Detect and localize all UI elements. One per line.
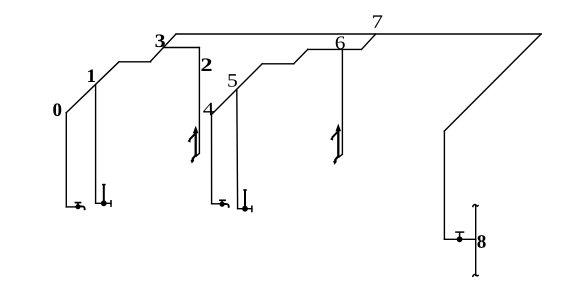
wire: horizontal jog between 1 and 3 [119, 61, 151, 63]
wire: node 5 valve horizontal [238, 208, 252, 210]
node 0 label [53, 103, 61, 116]
wire: horizontal segment above 5 [262, 63, 294, 65]
wire: diagonal main 0-1 to jog [66, 62, 119, 113]
node 7 label [373, 15, 382, 27]
node 1 label [88, 69, 95, 82]
valve (stop valve) at node 5 drop [242, 190, 252, 212]
shower head symbol on riser 2 [188, 126, 200, 164]
wire: horizontal 6-7 segment [308, 48, 362, 50]
wire: top main horizontal line [176, 33, 541, 35]
wire: right drop vertical [443, 131, 445, 239]
node 6 label [336, 36, 345, 49]
node 2 label [201, 58, 211, 71]
riser 8 vertical line [475, 206, 477, 276]
wire: node 0 drop vertical [65, 113, 67, 207]
wire: node 4 drop vertical [211, 115, 213, 204]
wire: diagonal 4-5 branch [212, 64, 263, 115]
wire: riser 2 vertical [198, 48, 200, 154]
riser 8 top break mark [473, 205, 479, 208]
riser 8 bottom break mark [473, 274, 479, 277]
wire: diagonal jog to top line through node 3 [151, 34, 176, 61]
wire: node 3 branch horizontal [164, 47, 200, 49]
node 5 label [228, 74, 237, 87]
node 4 label [203, 103, 214, 116]
wire: node 1 valve horizontal [96, 202, 111, 204]
valve on bottom horizontal near riser 8 [455, 232, 464, 242]
wire: node 1 drop vertical [95, 85, 97, 204]
valve (stop valve) at node 1 drop [101, 185, 111, 207]
shower head symbol on node 6 drop [330, 124, 342, 165]
wire: right diagonal from top line [444, 34, 541, 131]
wire: diagonal jog near 6 [294, 49, 308, 63]
wire: node 4 bottom horizontal to faucet [212, 203, 223, 205]
wire: bottom horizontal to riser 8 [444, 238, 475, 240]
wire: node 7 diagonal joining top line [362, 34, 376, 49]
node 3 label [155, 34, 164, 47]
faucet at node 0 drop [75, 203, 85, 211]
wire: node 6 drop vertical [341, 49, 343, 154]
faucet at node 4 drop [219, 200, 229, 208]
wire: node 5 drop vertical [236, 90, 239, 209]
wire: node 0 bottom horizontal to faucet [66, 206, 78, 208]
node 8 label [477, 235, 485, 248]
